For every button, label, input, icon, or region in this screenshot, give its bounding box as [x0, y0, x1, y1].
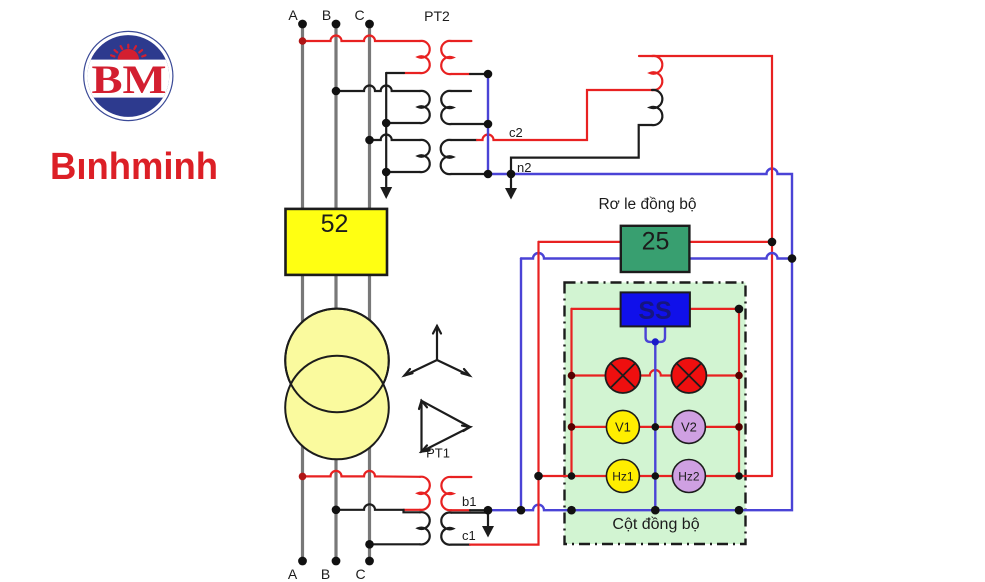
node V row center: [652, 423, 660, 431]
svg-text:B: B: [322, 7, 331, 23]
PT2 primary coil 2: [418, 91, 430, 123]
svg-text:52: 52: [321, 210, 349, 238]
svg-text:Hz1: Hz1: [612, 470, 634, 484]
wire PT2 secondary 2 stub: [451, 90, 471, 92]
meter V1: [606, 410, 639, 443]
svg-text:A: A: [288, 7, 298, 23]
node bottom rail right: [735, 506, 744, 515]
svg-text:n2: n2: [517, 160, 531, 175]
node PT2 sec 3: [484, 170, 493, 179]
node V row left: [568, 423, 576, 431]
ground b1: [482, 510, 494, 537]
node bus B top: [332, 20, 341, 29]
transformer winding 1 outline: [285, 309, 389, 413]
node SS drop: [652, 338, 659, 345]
svg-text:Cột đồng bộ: Cột đồng bộ: [612, 516, 699, 533]
wire phase A to PT2 primary 1: [303, 36, 421, 42]
node tap B top: [332, 87, 341, 96]
node bus A bottom: [298, 557, 307, 566]
node tap C bottom: [365, 540, 374, 549]
node bus C bottom: [365, 557, 374, 566]
PT2 primary coil 3: [418, 140, 430, 172]
wire relay coil top to right rail: [639, 56, 772, 476]
wire PT1 primary 1 bottom lead: [404, 509, 421, 511]
wire PT1 secondary 1 stub: [451, 476, 471, 478]
wire PT2 secondary 1 to node: [451, 73, 470, 75]
wire b1: [451, 509, 470, 511]
wire PT2 secondary 1 stub: [451, 40, 471, 42]
wire SS row red: [572, 308, 740, 310]
node lamp row right: [735, 372, 743, 380]
wire PT2 secondary 3 to node n2: [451, 173, 488, 175]
wire PT2 primary 1 bottom lead: [404, 72, 420, 74]
bus B: [334, 24, 337, 561]
wire phase A to PT1 primary 1: [303, 471, 421, 477]
wire blue center drop: [646, 326, 665, 510]
node lamp row left: [568, 372, 576, 380]
wire left red rail: [570, 309, 572, 476]
phasor delta: [419, 401, 470, 452]
svg-text:C: C: [354, 7, 364, 23]
wire PT1 primary 2 to phase C: [370, 543, 421, 545]
PT1 secondary coil 2: [441, 512, 453, 544]
svg-text:25: 25: [642, 228, 670, 256]
wire c2: [451, 139, 477, 141]
wire n2: [488, 169, 792, 259]
node PT2 sec 1: [484, 70, 493, 79]
node relay right blue: [788, 254, 797, 263]
wire right red rail: [738, 309, 740, 476]
wire relay 25 red: [539, 241, 773, 243]
node V row right: [735, 423, 743, 431]
wire phase B junction: [336, 504, 420, 512]
wire c1: [451, 543, 470, 545]
node tap B bottom: [332, 506, 341, 515]
node tap A bottom: [299, 473, 307, 481]
wire relay 25 blue: [521, 253, 792, 259]
logo BM circle: [80, 31, 180, 120]
breaker 52 box: [286, 209, 388, 275]
wire Hz row red: [539, 475, 773, 477]
node Hz row left: [568, 472, 576, 480]
node PT2 sec 2: [484, 120, 493, 129]
svg-text:V2: V2: [681, 420, 697, 435]
PT1 primary coil 2: [418, 512, 430, 544]
relay coil 2 black: [650, 90, 662, 125]
wire PT2 primary 3 bottom lead: [386, 171, 420, 173]
SS box: [621, 292, 690, 326]
PT2 secondary coil 2: [441, 91, 453, 124]
node relay right red: [768, 238, 777, 247]
meter Hz1: [606, 460, 639, 493]
wire bottom blue rail: [488, 258, 792, 511]
wire blue secondary tie: [487, 74, 489, 174]
wire phase C to PT2 primary 3: [370, 135, 421, 141]
node SS right: [735, 305, 744, 314]
PT2 secondary coil 3: [441, 140, 453, 174]
wire PT2 primary common: [385, 73, 387, 172]
node PT2 common 1: [382, 119, 391, 128]
svg-text:PT1: PT1: [426, 446, 450, 461]
bus A: [301, 24, 304, 561]
wire red left riser: [537, 242, 539, 476]
ground n2: [505, 174, 517, 200]
node bottom rail center: [651, 506, 660, 515]
wire blue left riser: [520, 259, 522, 511]
PT1 primary coil 1: [418, 477, 430, 510]
PT1 secondary coil 1: [441, 477, 453, 510]
svg-text:Hz2: Hz2: [678, 470, 700, 484]
svg-text:V1: V1: [615, 420, 631, 435]
transformer winding 1: [285, 309, 389, 413]
node bottom rail b1: [484, 506, 493, 515]
svg-text:c2: c2: [509, 125, 523, 140]
node bottom rail left: [567, 506, 576, 515]
wire PT2 primary 2 bottom lead: [386, 122, 420, 124]
wire V row red: [572, 426, 740, 428]
node n2: [507, 170, 516, 179]
PT2 primary coil 1: [418, 41, 430, 73]
wire lamp row red: [572, 370, 740, 376]
svg-text:A: A: [288, 566, 298, 582]
svg-text:Rơ le đồng bộ: Rơ le đồng bộ: [598, 196, 696, 213]
phasor wye: [405, 326, 470, 376]
svg-text:C: C: [355, 566, 365, 582]
svg-text:c1: c1: [462, 528, 476, 543]
node Hz row center: [652, 472, 660, 480]
lamp L1: [605, 358, 640, 393]
svg-text:b1: b1: [462, 494, 476, 509]
svg-text:B: B: [321, 566, 330, 582]
svg-text:Bınhminh: Bınhminh: [50, 146, 218, 188]
transformer winding 2: [285, 356, 389, 460]
node PT2 common 2: [382, 168, 391, 177]
node Hz row right: [735, 472, 743, 480]
node Hz row left junction: [534, 472, 543, 481]
wire phase B to PT2 primary 2: [336, 86, 420, 91]
meter Hz2: [672, 460, 705, 493]
relay 25 box: [621, 226, 690, 272]
node tap A top: [299, 37, 307, 45]
sync column box: [565, 283, 746, 545]
node tap C top: [365, 136, 374, 145]
node bus C top: [365, 20, 374, 29]
wire PT2 secondary 2 to node: [451, 123, 488, 125]
meter V2: [672, 410, 705, 443]
lamp L2: [671, 358, 706, 393]
svg-text:BM: BM: [92, 57, 167, 102]
ground PT2 primary: [380, 172, 392, 199]
node bottom rail riser: [517, 506, 526, 515]
svg-text:SS: SS: [638, 297, 671, 325]
node bus B bottom: [332, 557, 341, 566]
svg-text:PT2: PT2: [424, 8, 450, 24]
wire relay coil 2 bottom to n2: [511, 125, 652, 174]
relay coil 1 red: [650, 56, 662, 90]
wire PT1 secondary 2 top lead: [451, 511, 486, 513]
PT2 secondary coil 1: [441, 41, 453, 74]
node bus A top: [298, 20, 307, 29]
bus C: [368, 24, 371, 561]
